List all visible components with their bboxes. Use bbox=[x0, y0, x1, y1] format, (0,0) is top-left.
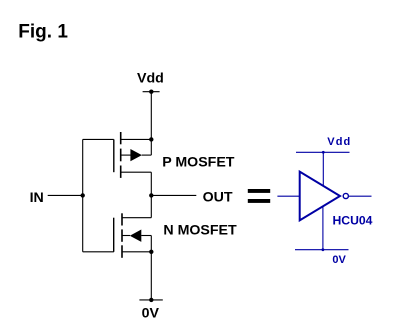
svg-text:HCU04: HCU04 bbox=[333, 214, 373, 228]
wire N MOSFET source to 0V bbox=[150, 252, 152, 300]
P MOSFET Q1 bbox=[114, 132, 152, 178]
junction dot P MOSFET source node bbox=[149, 137, 153, 141]
svg-text:OUT: OUT bbox=[203, 189, 233, 205]
junction dot inverter Vdd bbox=[322, 151, 325, 154]
svg-text:N MOSFET: N MOSFET bbox=[163, 223, 237, 239]
inverter 0V rail bar bbox=[295, 249, 349, 251]
wire Vdd to P MOSFET source bbox=[150, 92, 152, 140]
wire to P MOSFET gate bbox=[83, 138, 114, 140]
IN wire bbox=[48, 194, 83, 196]
inverter output wire bbox=[349, 195, 372, 197]
equals sign bbox=[248, 189, 270, 203]
wire triangle to inverter 0V bbox=[322, 207, 324, 250]
svg-text:P MOSFET: P MOSFET bbox=[162, 155, 235, 171]
junction dot Vdd bbox=[149, 90, 153, 94]
junction dot inverter 0V bbox=[322, 248, 325, 251]
inverter U1 triangle bbox=[300, 172, 340, 221]
0V rail bar bbox=[139, 299, 162, 301]
inverter input wire bbox=[277, 195, 299, 197]
junction dot gate node bbox=[81, 193, 85, 197]
junction dot N MOSFET source node bbox=[149, 250, 153, 254]
OUT wire bbox=[151, 194, 196, 196]
inverter Vdd rail bar bbox=[296, 151, 350, 153]
junction dot OUT node bbox=[149, 193, 153, 197]
Vdd rail bar bbox=[143, 91, 160, 93]
svg-text:Fig. 1: Fig. 1 bbox=[18, 22, 68, 43]
inverter output bubble bbox=[343, 193, 348, 198]
wire to N MOSFET gate bbox=[83, 251, 114, 253]
svg-text:Vdd: Vdd bbox=[327, 136, 351, 148]
svg-text:0V: 0V bbox=[142, 306, 160, 322]
wire inverter Vdd to triangle bbox=[322, 152, 324, 186]
svg-text:0V: 0V bbox=[332, 254, 346, 266]
svg-text:Vdd: Vdd bbox=[137, 71, 164, 87]
wire P MOSFET drain to N MOSFET drain bbox=[150, 172, 152, 218]
junction dot 0V bbox=[149, 298, 153, 302]
N MOSFET Q2 bbox=[114, 213, 152, 257]
svg-text:IN: IN bbox=[30, 190, 44, 206]
gate bus vertical wire bbox=[82, 139, 84, 251]
